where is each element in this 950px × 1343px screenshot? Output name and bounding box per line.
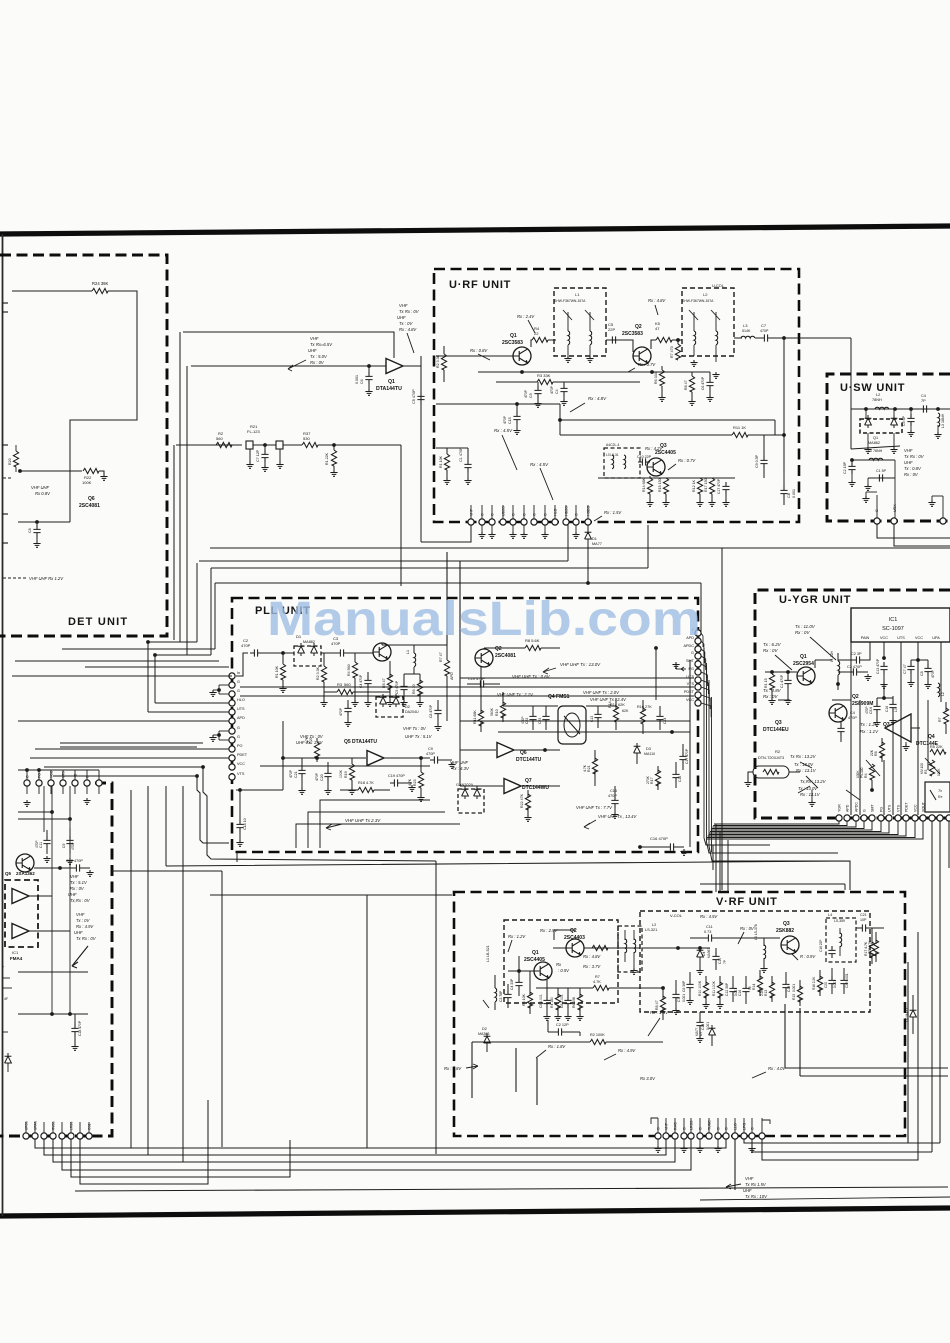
- wire Q6 emitter: [18, 521, 70, 523]
- svg-text:470P: 470P: [848, 716, 857, 720]
- svg-text:G: G: [237, 726, 240, 730]
- svg-text:L0: L0: [894, 708, 898, 712]
- svg-text:C13 470P: C13 470P: [876, 658, 880, 674]
- pin UBSS U-RF: [500, 519, 506, 525]
- pin G PLL: [229, 691, 235, 697]
- svg-text:C16: C16: [885, 706, 889, 712]
- capacitor C8 0.001: [564, 996, 571, 1008]
- resistor R1 22K: [333, 445, 335, 450]
- wire VCC hook down: [203, 767, 436, 861]
- svg-text:PDET: PDET: [684, 690, 695, 694]
- U-SW UNIT box: [827, 374, 950, 521]
- svg-text:VHF UHF: VHF UHF: [31, 485, 50, 490]
- capacitor C20 0.001: [828, 976, 835, 988]
- svg-text:C3 78P: C3 78P: [499, 990, 503, 1002]
- capacitor C11 470P: [43, 836, 50, 848]
- svg-text:0.73: 0.73: [704, 930, 711, 934]
- svg-text:2S8909M: 2S8909M: [852, 701, 873, 707]
- pin GS1 lower-left: [86, 1133, 92, 1139]
- svg-text:LS-321: LS-321: [645, 928, 657, 932]
- resistor R8 47: [660, 996, 665, 1012]
- svg-text:10P: 10P: [860, 918, 867, 922]
- svg-text:VTS: VTS: [62, 771, 66, 778]
- pin G V-RF: [655, 1133, 661, 1139]
- svg-text:7P: 7P: [723, 960, 727, 964]
- wire SMT arrow: [681, 668, 686, 670]
- svg-text:C18 10: C18 10: [243, 818, 247, 830]
- bottom right nest: [744, 1139, 940, 1143]
- wire pin VHF down to DTA144TU output: [421, 525, 471, 542]
- pin G left-mid: [24, 780, 30, 786]
- svg-text:C1 5P: C1 5P: [876, 469, 887, 473]
- svg-text:Q6: Q6: [520, 750, 527, 756]
- svg-text:Rx : 4.5V: Rx : 4.5V: [530, 462, 549, 467]
- pin ground stub: [481, 525, 483, 532]
- svg-text:Rx : 0V: Rx : 0V: [70, 886, 85, 891]
- wire DET R24 to Q6: [70, 291, 137, 522]
- capacitor C5 470P: [417, 392, 424, 404]
- stub left edge: [2, 302, 8, 304]
- svg-text:78NH: 78NH: [872, 398, 882, 402]
- svg-text:DTN-T203J4T3: DTN-T203J4T3: [758, 756, 784, 760]
- resistor R1 10K: [444, 454, 449, 470]
- pin LRSS lower-left: [68, 1133, 74, 1139]
- svg-text:Tx: Tx: [938, 789, 942, 793]
- svg-text:R14: R14: [752, 984, 756, 990]
- wire left bus y667: [85, 666, 229, 668]
- capacitor C4 7P: [919, 405, 931, 412]
- resistor R16 27K: [640, 708, 645, 724]
- pin n U-YGR: [946, 815, 950, 821]
- resistor R3 560: [337, 689, 353, 694]
- wires from PLL right pins to right: [704, 838, 770, 845]
- resistor R5 47: [656, 337, 672, 342]
- capacitor C8 DET: [33, 525, 40, 537]
- svg-text:C12: C12: [678, 776, 682, 782]
- pin G left-mid: [84, 780, 90, 786]
- capacitor C9 470P PLL: [430, 756, 442, 763]
- svg-text:L3 18NH: L3 18NH: [941, 413, 945, 428]
- resistor R4 PV-100 100K: [869, 764, 874, 780]
- svg-text:C11: C11: [706, 925, 713, 929]
- capacitor C3 78P: [504, 990, 511, 1002]
- PLL bottom-left nested rails: [320, 800, 430, 848]
- svg-text:+B: +B: [74, 773, 78, 778]
- svg-text:C18 22P: C18 22P: [819, 940, 823, 952]
- capacitor C9 0.5P: [760, 456, 767, 468]
- svg-text:4.7K: 4.7K: [583, 764, 587, 772]
- wire LLO down: [734, 1139, 736, 1190]
- svg-text:C3 470P: C3 470P: [847, 665, 862, 669]
- svg-text:Tx : 13.0V: Tx : 13.0V: [794, 762, 814, 767]
- pin gnd stub V-RF: [683, 1139, 685, 1146]
- svg-text:YGR: YGR: [838, 804, 842, 812]
- wire buffer output down: [420, 366, 422, 530]
- svg-text:Rx : 13.1V: Rx : 13.1V: [800, 792, 821, 797]
- svg-text:C12 36P: C12 36P: [725, 982, 729, 996]
- capacitor C22: [529, 712, 536, 724]
- svg-text:PDET: PDET: [237, 753, 248, 757]
- resistor R2 560: [216, 442, 232, 447]
- svg-text:Tx : 1.2V: Tx : 1.2V: [860, 722, 879, 727]
- oscillator sub-box V-RF: [504, 920, 618, 1003]
- wire FMS1 top: [503, 705, 558, 707]
- U-YGR to V-RF channel: [712, 845, 714, 870]
- pin APDC PLL right: [695, 646, 701, 652]
- svg-text:L2: L2: [941, 692, 945, 696]
- svg-text:R : 0.9V: R : 0.9V: [800, 954, 816, 959]
- pin gnd stub V-RF: [657, 1139, 659, 1146]
- pin PO PLL: [229, 746, 235, 752]
- svg-text:R15: R15: [792, 994, 796, 1000]
- svg-text:XOUT: XOUT: [922, 801, 926, 812]
- svg-text:R1 15: R1 15: [764, 678, 768, 688]
- svg-text:0.001: 0.001: [792, 984, 796, 992]
- wire YGR inner box: [927, 700, 929, 770]
- svg-text:R4: R4: [864, 773, 868, 778]
- svg-text:Rx : 1.5V: Rx : 1.5V: [650, 1010, 669, 1015]
- svg-text:R7: R7: [595, 975, 600, 979]
- svg-text:2.2K: 2.2K: [760, 989, 764, 996]
- inductor L1b: [590, 331, 592, 345]
- svg-text:Q3: Q3: [783, 921, 790, 927]
- svg-text:VHF UHF Tx , 13.4V: VHF UHF Tx , 13.4V: [598, 814, 637, 819]
- pin In PLL: [229, 673, 235, 679]
- capacitor C6 470P: [706, 378, 713, 390]
- pin SMT PLL right: [695, 661, 701, 667]
- capacitor C5 22P: [606, 339, 630, 341]
- svg-text:G: G: [26, 775, 30, 778]
- svg-text:C1 470P: C1 470P: [459, 447, 463, 462]
- svg-text:C7: C7: [677, 998, 681, 1002]
- svg-text:G: G: [237, 689, 240, 693]
- svg-text:Rx : 0.8V: Rx : 0.8V: [444, 1066, 462, 1071]
- svg-text:Tx Rx 1.5V: Tx Rx 1.5V: [745, 1182, 767, 1187]
- svg-text:URAN: URAN: [34, 1120, 38, 1130]
- wire PDET down: [701, 695, 710, 709]
- svg-text:4.7K: 4.7K: [366, 781, 374, 785]
- capacitor C17 470P right: [679, 752, 686, 764]
- wire VCC: [44, 766, 203, 768]
- wire APD: [18, 720, 229, 722]
- svg-text:G: G: [481, 513, 485, 516]
- svg-text:G: G: [875, 509, 879, 512]
- transistor Q2 2SC4081 PLL: [475, 649, 493, 667]
- capacitor C3 470P: [336, 649, 348, 656]
- pin VTS PLL right: [695, 684, 701, 690]
- svg-text:MV-100: MV-100: [920, 763, 924, 774]
- svg-text:MA862: MA862: [868, 441, 880, 445]
- svg-text:C2 15P: C2 15P: [843, 461, 847, 474]
- diode Q1b: [891, 415, 898, 428]
- svg-text:L1 22H: L1 22H: [830, 651, 834, 662]
- resistor R7 4.7K: [593, 985, 609, 990]
- wire feed into PLL x447: [446, 552, 448, 645]
- svg-text:PDET: PDET: [905, 802, 909, 812]
- capacitor C18 470P low: [71, 1024, 78, 1036]
- svg-text:UHF: UHF: [397, 315, 406, 320]
- svg-text:R1 10K: R1 10K: [275, 665, 279, 678]
- wire mid rail: [436, 403, 560, 405]
- pin PG PLL right: [695, 669, 701, 675]
- DET UNIT box: [0, 255, 167, 636]
- wire x455 PLL bottom: [236, 852, 238, 862]
- svg-text:2SC2954: 2SC2954: [793, 661, 814, 667]
- U-RF UNIT box: [434, 269, 799, 522]
- svg-text:VTS: VTS: [687, 682, 695, 686]
- svg-text:UTS: UTS: [237, 707, 245, 711]
- svg-text:C9: C9: [428, 747, 433, 751]
- XOUT crystal box: [925, 782, 950, 812]
- svg-text:R12 1K: R12 1K: [692, 479, 696, 492]
- wire Q1 collector top: [382, 644, 447, 646]
- pin APD U-YGR: [844, 815, 850, 821]
- svg-text:Rx : 4.8V: Rx : 4.8V: [588, 396, 607, 401]
- stub left edge: [2, 444, 8, 446]
- wire Q2 collector row: [553, 947, 566, 949]
- svg-text:G: G: [691, 651, 694, 655]
- svg-text:7P: 7P: [921, 399, 926, 403]
- svg-text:Rx : 4.8V: Rx : 4.8V: [583, 954, 601, 959]
- pin URAN lower-left: [32, 1133, 38, 1139]
- capacitor C14 small: [656, 712, 663, 724]
- pin URX U-SW: [891, 518, 897, 524]
- capacitor C22 0.001: [840, 976, 847, 988]
- svg-text:U·SW UNIT: U·SW UNIT: [840, 382, 905, 394]
- svg-text:GS1: GS1: [88, 1123, 92, 1130]
- resistor R4 180: [555, 994, 560, 1010]
- svg-text:UHF: UHF: [743, 1188, 752, 1193]
- svg-text:C5 6P: C5 6P: [902, 415, 906, 426]
- wire PDET: [30, 757, 229, 759]
- ground near right pin: [928, 500, 935, 506]
- svg-text:R1 10K: R1 10K: [439, 455, 443, 468]
- diode D4 MA363 VRF: [697, 947, 704, 960]
- svg-text:Tx Rx : 0V: Tx Rx : 0V: [76, 936, 97, 941]
- svg-text:C15: C15: [508, 417, 512, 424]
- ground brace G pins upper: [219, 684, 229, 686]
- capacitor C15 470P: [516, 404, 518, 414]
- wire left bus y649: [62, 648, 211, 650]
- resistor R8 5.6K: [525, 645, 541, 650]
- pin VCC left-mid: [48, 780, 54, 786]
- svg-text:UBSS: UBSS: [502, 506, 506, 516]
- wire emitter row: [536, 987, 588, 989]
- filter R21 FL-123 left: [246, 441, 253, 449]
- svg-text:D3: D3: [646, 747, 651, 751]
- svg-text:R8: R8: [874, 751, 878, 756]
- svg-text:Rx : 0V: Rx : 0V: [310, 360, 325, 365]
- svg-text:C14: C14: [701, 1024, 705, 1030]
- pin VCC PLL right: [695, 700, 701, 706]
- svg-text:470P: 470P: [550, 385, 554, 394]
- svg-text:2SC4081: 2SC4081: [495, 653, 516, 659]
- svg-text:C6: C6: [360, 379, 364, 384]
- svg-text:Rx 0.8V: Rx 0.8V: [35, 491, 51, 496]
- trimmer arrow R3: [925, 758, 940, 774]
- svg-text:R17: R17: [650, 777, 654, 784]
- svg-text:470P: 470P: [608, 794, 617, 798]
- long wire y862: [165, 786, 167, 866]
- svg-text:R20: R20: [309, 737, 313, 744]
- resistor R14 56: [757, 976, 762, 992]
- transistor Q2 2SC3583: [633, 347, 651, 365]
- pin YGR U-YGR: [836, 815, 842, 821]
- svg-text:Rx : 4.8V: Rx : 4.8V: [648, 298, 666, 303]
- inductor L2 YGR: [938, 683, 940, 697]
- transistor Q1 2SC3583: [513, 347, 531, 365]
- resistor R10 560K: [500, 702, 505, 718]
- svg-text:U7: U7: [699, 1032, 703, 1036]
- pin VCC U-YGR: [912, 815, 918, 821]
- pin +B left-mid: [72, 780, 78, 786]
- wire VTS: [53, 775, 197, 777]
- svg-text:4.7K: 4.7K: [593, 980, 601, 984]
- pin LLO V-RF: [732, 1133, 738, 1139]
- wire VTS hook down: [197, 776, 229, 843]
- svg-text:Q1: Q1: [532, 950, 539, 956]
- wire DET R22 input: [20, 470, 82, 472]
- capacitor C1 5P: [894, 460, 896, 478]
- svg-text:100K: 100K: [856, 770, 860, 778]
- svg-text:LRSS: LRSS: [690, 1120, 694, 1130]
- pin gnd stub V-RF: [717, 1139, 719, 1146]
- svg-text:HBSS: HBSS: [565, 506, 569, 516]
- svg-text:514K: 514K: [742, 329, 751, 333]
- svg-text:Rx : 0V: Rx : 0V: [904, 472, 919, 477]
- ground FL left: [246, 462, 253, 468]
- capacitor C9 470P: [537, 382, 539, 388]
- wire U-RF output: [772, 337, 799, 339]
- pin G U-RF: [542, 519, 548, 525]
- svg-text:R14 68K: R14 68K: [642, 477, 646, 492]
- inductor L2b: [716, 331, 718, 345]
- svg-text:470P: 470P: [339, 707, 343, 716]
- resistor R12 1K: [697, 478, 702, 494]
- resistor R6 15K: [577, 994, 582, 1010]
- svg-text:R11 1K: R11 1K: [733, 425, 746, 430]
- pin UTS PLL right: [695, 677, 701, 683]
- pin G U-RF: [531, 519, 537, 525]
- svg-text:G: G: [86, 775, 90, 778]
- svg-text:IC1: IC1: [12, 950, 19, 955]
- pin ground stub: [544, 525, 546, 532]
- svg-text:R1 22K: R1 22K: [325, 452, 329, 465]
- svg-text:Tx : 6.2V: Tx : 6.2V: [763, 642, 782, 647]
- svg-text:270K: 270K: [646, 775, 650, 784]
- svg-text:G: G: [237, 735, 240, 739]
- svg-text:HSEG: HSEG: [587, 506, 591, 516]
- svg-text:: 0.5V: : 0.5V: [558, 968, 570, 973]
- second bottom wire: [700, 1197, 950, 1200]
- svg-text:100K: 100K: [82, 480, 92, 485]
- resistor R14 62K: [613, 706, 618, 722]
- svg-text:Tx Rx : 0V: Tx Rx : 0V: [399, 309, 420, 314]
- svg-text:R15 150: R15 150: [658, 478, 662, 492]
- svg-text:Q2: Q2: [495, 646, 502, 652]
- svg-text:0.001: 0.001: [792, 489, 796, 498]
- wire osc top rail: [560, 419, 775, 421]
- resistor R14 68K: [647, 478, 652, 494]
- svg-text:R2: R2: [775, 749, 781, 754]
- wire U-SW input: [850, 338, 852, 409]
- svg-text:C5 470P: C5 470P: [412, 389, 416, 404]
- pin ground stub: [512, 525, 514, 532]
- svg-text:0.001: 0.001: [734, 988, 738, 996]
- svg-text:Tx,Rx : 13.2V: Tx,Rx : 13.2V: [800, 779, 827, 784]
- svg-text:LRSS: LRSS: [70, 1122, 74, 1130]
- svg-text:Rx : 1.8V: Rx : 1.8V: [548, 1044, 566, 1049]
- ground FL right: [276, 462, 283, 468]
- svg-text:Q5 DTA144TU: Q5 DTA144TU: [344, 739, 377, 745]
- svg-text:C4: C4: [555, 389, 559, 394]
- svg-text:R3 33K: R3 33K: [537, 373, 551, 378]
- coil box L2 SHW-F367WN-157A: [682, 288, 734, 356]
- svg-text:L1 LB-521: L1 LB-521: [486, 945, 490, 962]
- svg-text:Rx : 3.7V: Rx : 3.7V: [638, 362, 656, 367]
- wire In line inside: [236, 653, 248, 676]
- svg-text:G: G: [863, 809, 867, 812]
- resistor R11 68K: [478, 710, 483, 726]
- svg-text:Rx: Rx: [556, 962, 562, 967]
- long sloped bottom wire: [75, 1187, 948, 1191]
- svg-text:RI45: RI45: [674, 1122, 678, 1130]
- svg-text:R21: R21: [587, 765, 591, 772]
- svg-text:C20: C20: [824, 982, 828, 988]
- svg-text:2SK882: 2SK882: [776, 928, 794, 934]
- diode GANb: [474, 786, 481, 799]
- wire Y down: [701, 633, 703, 647]
- U-YGR UNIT box: [755, 590, 950, 818]
- pin PDET PLL: [229, 755, 235, 761]
- pin HLO PLL: [229, 700, 235, 706]
- svg-text:22: 22: [534, 331, 539, 336]
- svg-text:470P: 470P: [521, 717, 525, 724]
- svg-text:L2: L2: [652, 923, 656, 927]
- resistor R3 MV-100 100K: [929, 760, 934, 776]
- capacitor C16 0.001: [742, 984, 749, 996]
- svg-text:Q1: Q1: [800, 654, 807, 660]
- svg-text:Rx : 0.7V: Rx : 0.7V: [678, 458, 696, 463]
- svg-text:470P: 470P: [503, 415, 507, 424]
- svg-text:C8: C8: [28, 528, 32, 533]
- svg-text:VCC: VCC: [915, 636, 923, 640]
- svg-text:V-COL: V-COL: [670, 913, 683, 918]
- diode Q1a: [865, 415, 872, 428]
- capacitor C18 10: [239, 790, 241, 820]
- svg-text:R4 560: R4 560: [347, 664, 351, 676]
- pin G PLL: [229, 682, 235, 688]
- svg-text:Tx : 11.0V: Tx : 11.0V: [795, 624, 816, 629]
- svg-text:APD: APD: [237, 716, 245, 720]
- U-YGR vertical feeds: [850, 645, 852, 815]
- diode D3 MA110: [634, 743, 641, 756]
- stub left edge: [2, 542, 8, 544]
- IC1 SC-1097 box: [851, 608, 950, 642]
- pin HBSS U-RF: [563, 519, 569, 525]
- svg-text:R2 3.3K: R2 3.3K: [436, 354, 440, 368]
- svg-text:R2 100K: R2 100K: [590, 1033, 605, 1037]
- pin G U-RF: [573, 519, 579, 525]
- svg-text:G: G: [657, 1127, 661, 1130]
- capacitor C12 small: [672, 770, 679, 782]
- capacitor C9 470P low: [66, 836, 73, 848]
- svg-text:G: G: [237, 680, 240, 684]
- pin G V-RF: [723, 1133, 729, 1139]
- wire DET to PLL In: [12, 675, 232, 677]
- svg-text:UPA: UPA: [932, 636, 940, 640]
- resistor R5 47: [387, 674, 392, 690]
